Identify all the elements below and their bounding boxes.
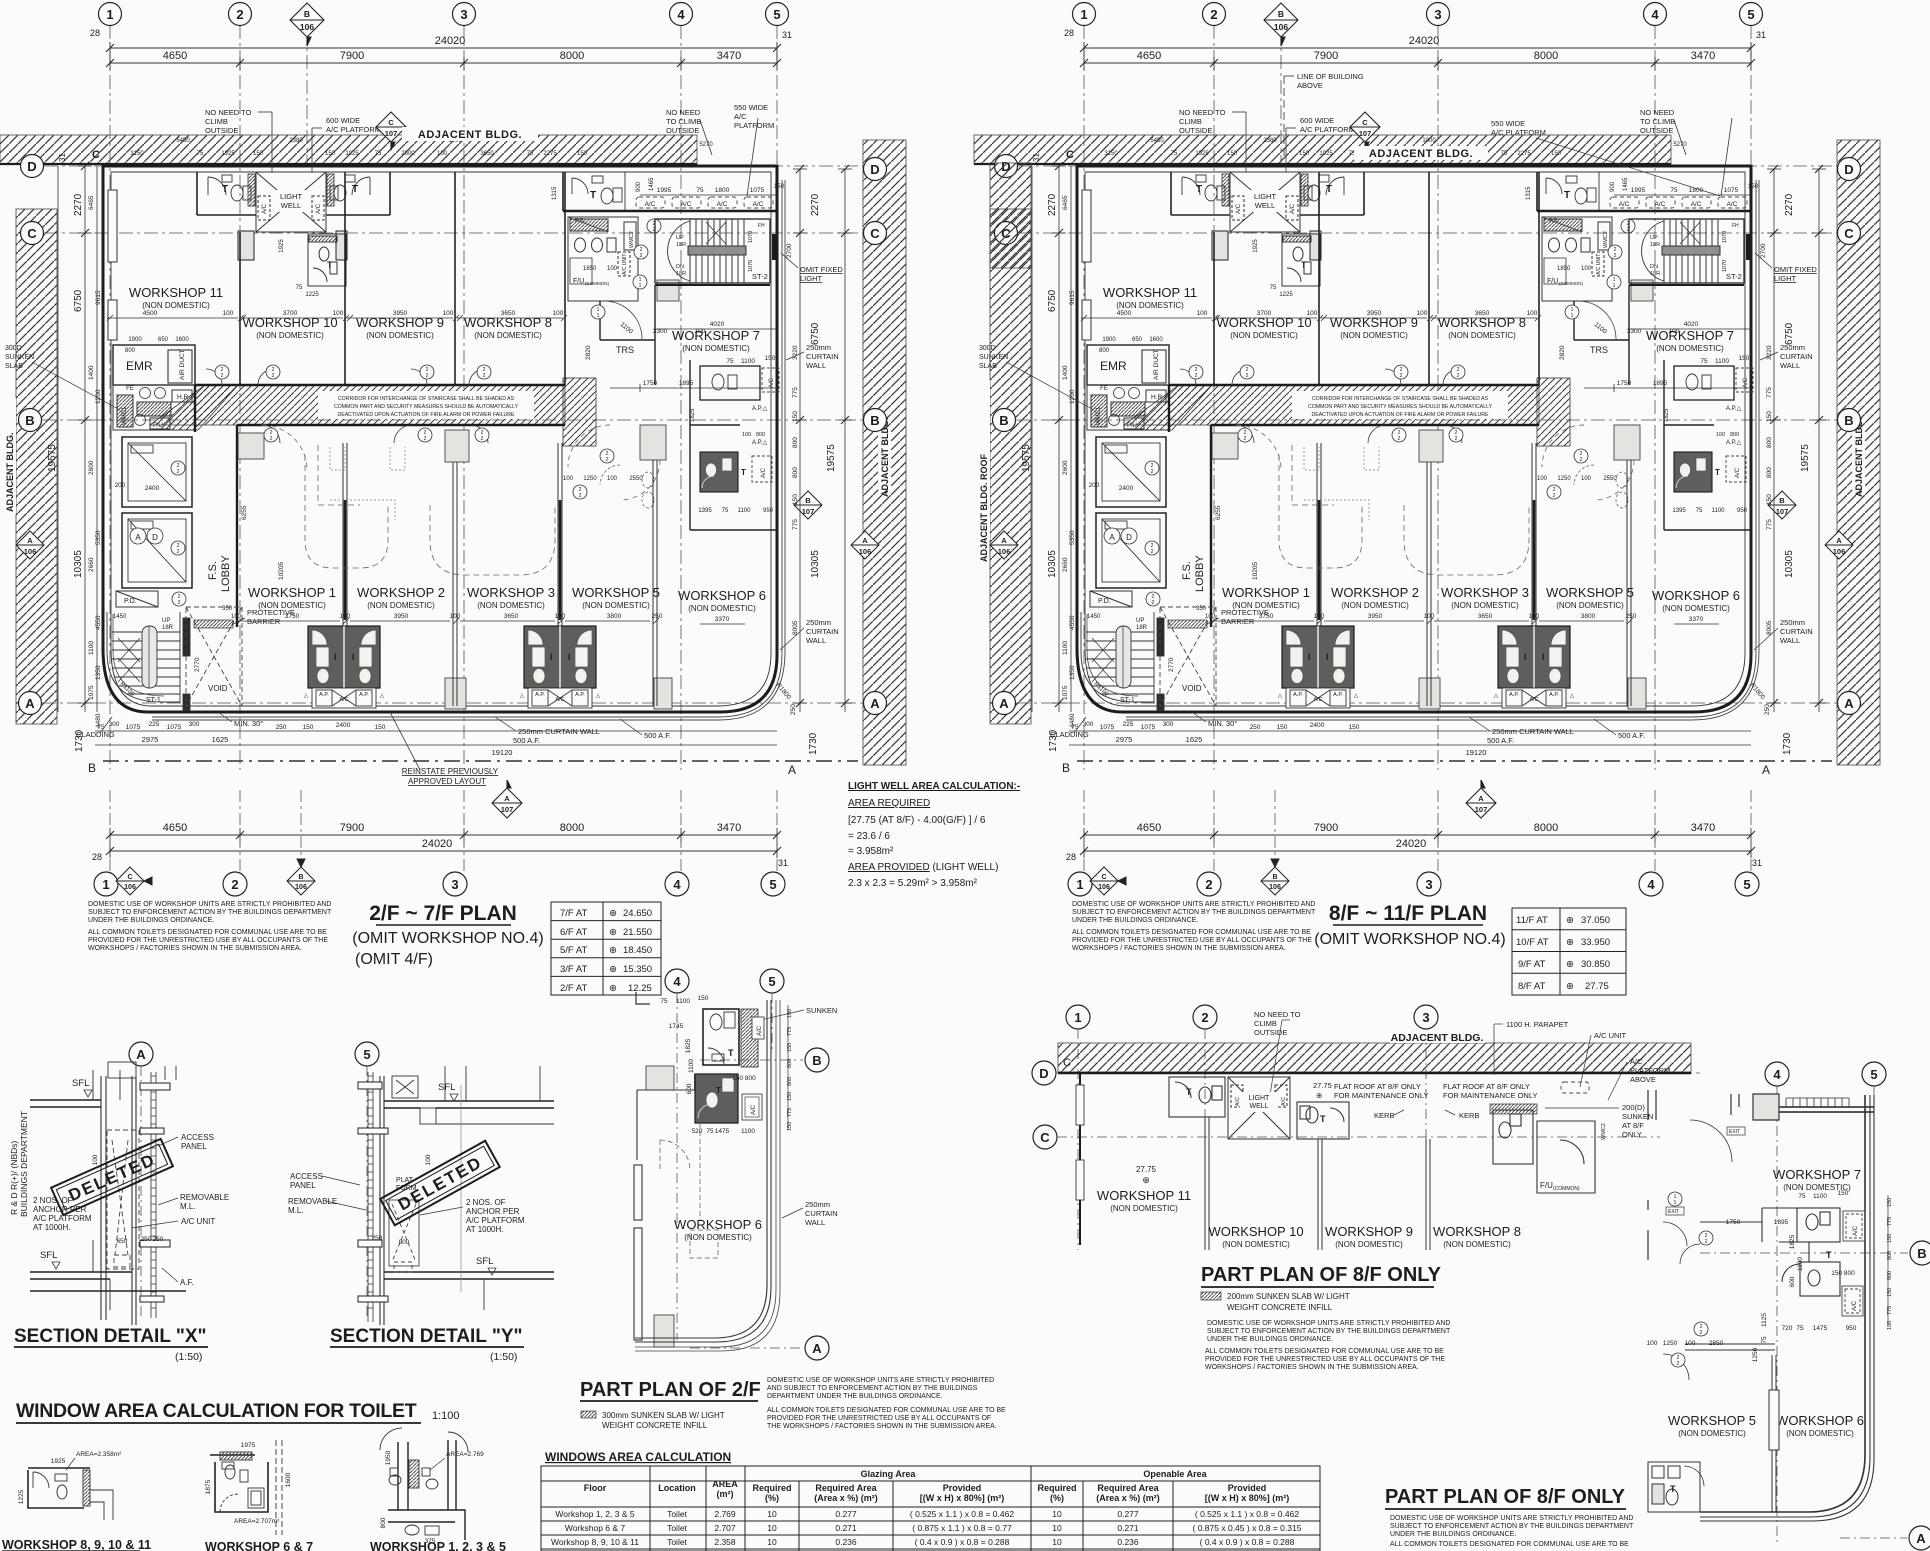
svg-text:T: T: [1826, 1250, 1832, 1260]
svg-text:PROVIDED FOR THE UNRESTRICTED: PROVIDED FOR THE UNRESTRICTED USE BY ALL…: [1205, 1356, 1445, 1363]
svg-text:WORKSHOP 6 & 7: WORKSHOP 6 & 7: [205, 1540, 313, 1551]
svg-text:1475: 1475: [715, 1128, 730, 1135]
svg-text:SUBJECT TO ENFORCEMENT ACTION: SUBJECT TO ENFORCEMENT ACTION BY THE BUI…: [1072, 909, 1316, 916]
svg-text:M.L.: M.L.: [180, 1202, 196, 1211]
svg-text:2.358: 2.358: [714, 1537, 736, 1547]
svg-text:ANCHOR PER: ANCHOR PER: [466, 1207, 520, 1216]
svg-text:1975: 1975: [241, 1442, 256, 1449]
svg-text:4: 4: [673, 877, 681, 892]
SFL labels: [40, 1078, 89, 1261]
svg-text:Required: Required: [752, 1483, 791, 1493]
svg-text:18.450: 18.450: [623, 945, 652, 956]
svg-text:27.75: 27.75: [1313, 1081, 1332, 1090]
right floor table: [1512, 908, 1626, 995]
svg-text:1600: 1600: [285, 1472, 292, 1487]
svg-text:3/F AT: 3/F AT: [560, 964, 587, 975]
svg-text:950: 950: [1846, 1325, 1857, 1332]
light well area calculation: [848, 781, 1020, 889]
svg-text:100: 100: [1685, 1340, 1696, 1347]
gray stamp text: [9, 1111, 29, 1217]
svg-text:2.769: 2.769: [714, 1509, 736, 1519]
svg-text:1925: 1925: [51, 1458, 66, 1465]
svg-text:B: B: [298, 874, 303, 881]
platform: [389, 1200, 419, 1272]
svg-text:PROVIDED FOR THE UNRESTRICTED: PROVIDED FOR THE UNRESTRICTED USE BY ALL…: [767, 1415, 991, 1422]
svg-text:ALL COMMON TOILETS DESIGNATED: ALL COMMON TOILETS DESIGNATED FOR COMMUN…: [1072, 929, 1311, 936]
svg-text:Location: Location: [658, 1483, 696, 1493]
svg-text:15.350: 15.350: [623, 964, 652, 975]
svg-text:8/F ~ 11/F PLAN: 8/F ~ 11/F PLAN: [1329, 902, 1487, 925]
svg-text:Toilet: Toilet: [667, 1523, 687, 1533]
svg-text:33.950: 33.950: [1581, 937, 1610, 948]
svg-text:CLIMB: CLIMB: [1254, 1019, 1277, 1028]
svg-text:WORKSHOP 1, 2, 3 & 5: WORKSHOP 1, 2, 3 & 5: [370, 1540, 506, 1551]
svg-text:3: 3: [1422, 1010, 1429, 1025]
right plan left strip label: [976, 380, 990, 562]
svg-text:T: T: [1186, 1087, 1192, 1097]
svg-text:WORKSHOPS / FACTORIES SHOWN IN: WORKSHOPS / FACTORIES SHOWN IN THE SUBMI…: [1205, 1364, 1419, 1371]
svg-text:1950: 1950: [385, 1450, 392, 1465]
svg-text:106: 106: [124, 884, 136, 891]
svg-text:(NON DOMESTIC): (NON DOMESTIC): [1110, 1204, 1178, 1213]
notes under left plan: [88, 901, 332, 952]
svg-text:10: 10: [1052, 1509, 1062, 1519]
svg-text:⊕: ⊕: [1566, 915, 1574, 926]
svg-text:150: 150: [1887, 1234, 1893, 1243]
svg-text:SFL: SFL: [476, 1256, 493, 1267]
svg-text:T: T: [716, 1086, 721, 1095]
A/C dashed box: [1561, 1082, 1589, 1093]
right dim chain: [787, 1005, 789, 1130]
flat roof labels: [1313, 1081, 1537, 1100]
svg-text:200mm SUNKEN SLAB W/ LIGHT: 200mm SUNKEN SLAB W/ LIGHT: [1227, 1292, 1350, 1301]
svg-text:AREA=2.358m²: AREA=2.358m²: [76, 1451, 122, 1458]
svg-text:AT 1000H.: AT 1000H.: [33, 1223, 71, 1232]
svg-text:A/C: A/C: [1852, 1300, 1858, 1311]
svg-text:ADJACENT BLDG. ROOF: ADJACENT BLDG. ROOF: [979, 453, 989, 562]
svg-text:(1:50): (1:50): [490, 1351, 517, 1363]
svg-text:(OMIT 4/F): (OMIT 4/F): [355, 951, 433, 968]
svg-text:3470: 3470: [717, 822, 741, 834]
svg-text:5: 5: [1870, 1067, 1877, 1082]
svg-text:10: 10: [767, 1509, 777, 1519]
svg-text:= 23.6 / 6: = 23.6 / 6: [848, 831, 890, 842]
svg-text:PANEL: PANEL: [181, 1142, 207, 1151]
svg-text:0.277: 0.277: [835, 1509, 857, 1519]
svg-text:800: 800: [399, 1239, 410, 1246]
svg-text:SUBJECT TO ENFORCEMENT ACTION: SUBJECT TO ENFORCEMENT ACTION BY THE BUI…: [1207, 1328, 1451, 1335]
svg-text:800: 800: [1887, 1251, 1893, 1260]
svg-text:FLAT ROOF AT 8/F ONLY: FLAT ROOF AT 8/F ONLY: [1334, 1082, 1421, 1091]
svg-text:30.850: 30.850: [1581, 959, 1610, 970]
svg-text:31: 31: [778, 858, 788, 868]
jog wall top: [636, 992, 650, 1004]
A/107 diamond: [492, 780, 522, 818]
svg-text:27.75: 27.75: [1585, 981, 1609, 992]
svg-text:150: 150: [787, 1092, 793, 1101]
right labels: [180, 1133, 229, 1287]
svg-text:150: 150: [1887, 1198, 1893, 1207]
slabs: [30, 1100, 186, 1291]
left plan ADJACENT BLDG.: [402, 127, 538, 141]
svg-text:ADJACENT BLDG.: ADJACENT BLDG.: [1391, 1032, 1484, 1044]
svg-text:0.277: 0.277: [1117, 1509, 1139, 1519]
left labels: [33, 1196, 92, 1232]
left plan 2/F-7/F: [0, 3, 906, 778]
svg-text:2/F AT: 2/F AT: [560, 983, 587, 994]
svg-text:WORKSHOP 8, 9, 10 & 11: WORKSHOP 8, 9, 10 & 11: [2, 1538, 151, 1551]
svg-text:B: B: [1917, 1246, 1926, 1261]
svg-text:WEIGHT CONCRETE INFILL: WEIGHT CONCRETE INFILL: [1227, 1303, 1333, 1312]
svg-text:ADJACENT BLDG.: ADJACENT BLDG.: [5, 432, 15, 512]
svg-text:24020: 24020: [422, 838, 453, 850]
svg-text:LIGHT: LIGHT: [1249, 1095, 1270, 1102]
svg-text:(OMIT WORKSHOP NO.4): (OMIT WORKSHOP NO.4): [352, 930, 543, 947]
walls left: [634, 1074, 695, 1340]
svg-text:800: 800: [1887, 1271, 1893, 1280]
toilet cluster: [1782, 1208, 1840, 1296]
top labels: [1254, 1010, 1670, 1084]
svg-text:550 WIDE: 550 WIDE: [734, 103, 768, 112]
interior walls: [1685, 1208, 1809, 1350]
DELETED stamp X: [51, 1139, 173, 1215]
grid circle A: [129, 1042, 153, 1066]
svg-text:(1:50): (1:50): [175, 1351, 202, 1363]
svg-text:(NON DOMESTIC): (NON DOMESTIC): [684, 1233, 752, 1242]
svg-text:A/C: A/C: [1281, 1097, 1287, 1106]
svg-text:KERB: KERB: [1374, 1111, 1394, 1120]
svg-text:[(W x H) x 80%] (m²): [(W x H) x 80%] (m²): [1205, 1493, 1290, 1503]
svg-text:Workshop 6 & 7: Workshop 6 & 7: [565, 1523, 626, 1533]
svg-text:1:100: 1:100: [432, 1410, 460, 1422]
svg-text:(NON DOMESTIC): (NON DOMESTIC): [1222, 1240, 1290, 1249]
svg-text:100: 100: [1647, 1340, 1658, 1347]
svg-text:A: A: [812, 1341, 822, 1356]
svg-text:WORKSHOP 10: WORKSHOP 10: [1208, 1224, 1303, 1239]
svg-text:A/C: A/C: [1630, 1057, 1643, 1066]
svg-text:D: D: [1039, 1066, 1048, 1081]
svg-text:A/C UNIT: A/C UNIT: [1594, 1031, 1627, 1040]
svg-text:ALL COMMON TOILETS DESIGNATED: ALL COMMON TOILETS DESIGNATED FOR COMMUN…: [767, 1407, 1006, 1414]
svg-text:600: 600: [686, 1083, 693, 1094]
workshop labels: [1097, 1165, 1521, 1249]
svg-text:150: 150: [1838, 1190, 1849, 1197]
svg-text:UNDER THE BUILDINGS ORDINANCE.: UNDER THE BUILDINGS ORDINANCE.: [1390, 1531, 1516, 1538]
svg-text:= 3.958m²: = 3.958m²: [848, 846, 894, 857]
svg-text:11/F AT: 11/F AT: [1516, 915, 1548, 926]
svg-text:1825: 1825: [1789, 1234, 1796, 1249]
svg-text:T: T: [728, 1048, 734, 1058]
svg-text:ONLY: ONLY: [1622, 1130, 1642, 1139]
svg-text:10/F AT: 10/F AT: [1516, 937, 1549, 948]
svg-text:800: 800: [380, 1517, 387, 1528]
svg-text:1100: 1100: [688, 1059, 695, 1073]
dims: [1647, 1190, 1857, 1362]
svg-text:(NON DOMESTIC): (NON DOMESTIC): [1678, 1429, 1746, 1438]
svg-text:1825: 1825: [685, 1038, 692, 1053]
svg-text:Workshop 8, 9, 10 & 11: Workshop 8, 9, 10 & 11: [551, 1537, 639, 1547]
svg-text:775: 775: [787, 1108, 793, 1117]
svg-text:200(D): 200(D): [1622, 1103, 1645, 1112]
svg-text:DOMESTIC USE OF WORKSHOP UNITS: DOMESTIC USE OF WORKSHOP UNITS ARE STRIC…: [1390, 1515, 1633, 1522]
svg-text:SECTION DETAIL "X": SECTION DETAIL "X": [14, 1326, 207, 1347]
svg-text:0.236: 0.236: [1117, 1537, 1139, 1547]
svg-text:SECTION DETAIL "Y": SECTION DETAIL "Y": [330, 1326, 523, 1347]
svg-text:REMOVABLE: REMOVABLE: [180, 1193, 229, 1202]
svg-text:A: A: [136, 1047, 146, 1062]
svg-text:APPROVED LAYOUT: APPROVED LAYOUT: [408, 777, 486, 786]
svg-text:A/C UNIT: A/C UNIT: [181, 1217, 215, 1226]
svg-text:150: 150: [1887, 1321, 1893, 1330]
svg-text:PROVIDED FOR THE UNRESTRICTED: PROVIDED FOR THE UNRESTRICTED USE BY ALL…: [88, 937, 328, 944]
svg-text:106: 106: [295, 884, 307, 891]
svg-text:4650: 4650: [163, 822, 187, 834]
DELETED stamp Y: [380, 1141, 499, 1225]
svg-text:A/C: A/C: [734, 112, 747, 121]
svg-text:⊕: ⊕: [1316, 1091, 1322, 1100]
svg-text:WORKSHOP 9: WORKSHOP 9: [1325, 1224, 1413, 1239]
svg-text:Workshop 1, 2, 3 & 5: Workshop 1, 2, 3 & 5: [555, 1509, 634, 1519]
svg-text:300mm SUNKEN SLAB W/ LIGHT: 300mm SUNKEN SLAB W/ LIGHT: [602, 1411, 725, 1420]
svg-text:⊕: ⊕: [609, 908, 617, 919]
svg-text:8000: 8000: [560, 822, 584, 834]
svg-text:5: 5: [768, 974, 775, 989]
svg-text:BUILDINGS DEPARTMENT: BUILDINGS DEPARTMENT: [19, 1111, 29, 1217]
svg-text:REINSTATE PREVIOUSLY: REINSTATE PREVIOUSLY: [402, 767, 499, 776]
svg-text:10: 10: [1052, 1537, 1062, 1547]
svg-text:AREA: AREA: [712, 1479, 738, 1489]
interior rooms: [1169, 1077, 1225, 1117]
svg-text:CURTAIN: CURTAIN: [805, 1209, 838, 1218]
svg-text:ALL COMMON TOILETS DESIGNATED: ALL COMMON TOILETS DESIGNATED FOR COMMUN…: [88, 929, 327, 936]
svg-text:A/C: A/C: [1853, 1225, 1859, 1236]
svg-text:C: C: [1040, 1130, 1050, 1145]
svg-text:75: 75: [660, 998, 668, 1005]
main wall: [1058, 1072, 1691, 1075]
svg-text:1: 1: [1074, 1010, 1081, 1025]
svg-text:2: 2: [231, 877, 238, 892]
toilet plan 1: [28, 1468, 90, 1508]
grid circles 4,5: [665, 969, 689, 993]
svg-text:1100: 1100: [1797, 1257, 1804, 1271]
partitions: [1205, 1117, 1430, 1250]
svg-text:WORKSHOPS / FACTORIES SHOWN IN: WORKSHOPS / FACTORIES SHOWN IN THE SUBMI…: [88, 945, 302, 952]
svg-text:C: C: [127, 874, 132, 881]
svg-text:WORKSHOP 11: WORKSHOP 11: [1097, 1188, 1191, 1203]
M.L. chain: [151, 1072, 156, 1318]
svg-text:WORKSHOP 7: WORKSHOP 7: [1773, 1167, 1861, 1182]
right paragraphs: [767, 1377, 1006, 1430]
right labels: [466, 1198, 525, 1234]
svg-text:150: 150: [698, 995, 709, 1002]
right plan 8/F-11/F: [974, 3, 1880, 778]
svg-text:AREA PROVIDED (LIGHT WELL): AREA PROVIDED (LIGHT WELL): [848, 862, 998, 873]
top dims: [660, 995, 756, 1135]
svg-text:75: 75: [1798, 1193, 1806, 1200]
svg-text:( 0.4 x 0.9 ) x 0.8 = 0.288: ( 0.4 x 0.9 ) x 0.8 = 0.288: [1200, 1537, 1295, 1547]
svg-text:12.25: 12.25: [628, 983, 652, 994]
A/C box top: [752, 1017, 764, 1039]
svg-text:AND SUBJECT TO ENFORCEMENT ACT: AND SUBJECT TO ENFORCEMENT ACTION BY THE…: [767, 1385, 978, 1392]
svg-text:10: 10: [1052, 1523, 1062, 1533]
A/C box 2: [742, 1094, 762, 1120]
left plan left strip label: [2, 398, 16, 514]
right plan 550 WIDE label: [1491, 119, 1720, 196]
svg-text:6/F AT: 6/F AT: [560, 927, 587, 938]
svg-text:WEIGHT CONCRETE INFILL: WEIGHT CONCRETE INFILL: [602, 1421, 708, 1430]
svg-text:LINE OF BUILDING: LINE OF BUILDING: [1297, 72, 1364, 81]
F/U room: [1493, 1110, 1595, 1193]
svg-text:SFL: SFL: [40, 1250, 57, 1261]
svg-text:720: 720: [1782, 1325, 1793, 1332]
svg-text:75: 75: [706, 1128, 714, 1135]
bottom dim lines: [110, 828, 777, 858]
svg-text:1: 1: [1674, 1200, 1677, 1206]
bottom grid verticals: [110, 790, 777, 871]
svg-text:KERB: KERB: [1459, 1111, 1479, 1120]
svg-text:[(W x H) x 80%] (m²): [(W x H) x 80%] (m²): [920, 1493, 1005, 1503]
svg-text:(m²): (m²): [717, 1489, 734, 1499]
svg-text:Provided: Provided: [1228, 1483, 1267, 1493]
svg-text:ABOVE: ABOVE: [1630, 1075, 1656, 1084]
workshop labels: [1668, 1167, 1864, 1438]
column blocks: [646, 1066, 674, 1347]
B / A circles: [805, 1048, 829, 1072]
svg-text:Provided: Provided: [943, 1483, 982, 1493]
right plan ADJACENT BLDG.: [1354, 146, 1488, 160]
svg-text:0.271: 0.271: [835, 1523, 857, 1533]
200(D) sunken note: [1622, 1103, 1653, 1139]
svg-text:LIGHT WELL AREA CALCULATION:-: LIGHT WELL AREA CALCULATION:-: [848, 781, 1020, 792]
svg-text:SFL: SFL: [72, 1078, 89, 1089]
svg-text:OUTSIDE: OUTSIDE: [1254, 1028, 1287, 1037]
svg-text:⊕: ⊕: [609, 983, 617, 994]
sunken hatched strip: [1490, 1104, 1537, 1114]
svg-text:150: 150: [787, 1122, 793, 1131]
svg-text:T: T: [1670, 1484, 1676, 1494]
svg-text:(COMMON): (COMMON): [1553, 1186, 1580, 1192]
svg-text:1250: 1250: [1663, 1340, 1678, 1347]
right plan title: [1314, 902, 1505, 948]
svg-text:1475: 1475: [1813, 1325, 1828, 1332]
left partial walls: [1648, 1090, 1779, 1260]
svg-text:EXIT: EXIT: [1729, 1129, 1740, 1135]
svg-text:5: 5: [769, 877, 776, 892]
svg-text:ALL COMMON TOILETS DESIGNATED: ALL COMMON TOILETS DESIGNATED FOR COMMUN…: [1205, 1348, 1444, 1355]
right plan left strip upper extension: [990, 163, 1031, 268]
toilet plan 2: [210, 1455, 268, 1512]
B/106 diamond: [287, 859, 315, 895]
svg-text:ACCESS: ACCESS: [181, 1133, 214, 1142]
svg-text:UNDER THE BUILDINGS ORDINANCE.: UNDER THE BUILDINGS ORDINANCE.: [1207, 1336, 1333, 1343]
svg-text:0.236: 0.236: [835, 1537, 857, 1547]
svg-text:800: 800: [787, 1077, 793, 1086]
svg-text:150: 150: [787, 1009, 793, 1018]
svg-text:A/C PLATFORM: A/C PLATFORM: [466, 1216, 525, 1225]
svg-text:775: 775: [1887, 1217, 1893, 1226]
svg-text:Glazing Area: Glazing Area: [861, 1469, 917, 1479]
light well: [1228, 1077, 1290, 1139]
svg-text:FOR MAINTENANCE ONLY: FOR MAINTENANCE ONLY: [1443, 1091, 1537, 1100]
svg-text:(NON DOMESTIC): (NON DOMESTIC): [1335, 1240, 1403, 1249]
svg-text:DELETED: DELETED: [66, 1150, 159, 1205]
svg-text:PROVIDED FOR THE UNRESTRICTED: PROVIDED FOR THE UNRESTRICTED USE BY ALL…: [1072, 937, 1312, 944]
svg-text:550 WIDE: 550 WIDE: [1491, 119, 1525, 128]
top wall with comb: [1753, 1107, 1874, 1112]
svg-text:(%): (%): [765, 1493, 779, 1503]
svg-text:2 NOS. OF: 2 NOS. OF: [33, 1196, 73, 1205]
notes under right plan: [1072, 901, 1316, 952]
svg-text:100: 100: [92, 1154, 99, 1165]
svg-text:DOMESTIC USE OF WORKSHOP UNITS: DOMESTIC USE OF WORKSHOP UNITS ARE STRIC…: [1072, 901, 1315, 908]
toilet 2: [1297, 1102, 1349, 1139]
svg-text:1895: 1895: [1774, 1219, 1789, 1226]
svg-text:2.707: 2.707: [714, 1523, 736, 1533]
svg-text:WORKSHOPS / FACTORIES SHOWN IN: WORKSHOPS / FACTORIES SHOWN IN THE SUBMI…: [1072, 945, 1286, 952]
svg-text:150: 150: [787, 1043, 793, 1052]
svg-text:F/U: F/U: [1540, 1181, 1553, 1190]
svg-text:A.F.: A.F.: [180, 1278, 194, 1287]
svg-text:1250: 1250: [1752, 1347, 1759, 1362]
svg-text:5/F AT: 5/F AT: [560, 945, 587, 956]
svg-text:0.271: 0.271: [1117, 1523, 1139, 1533]
svg-text:1125: 1125: [1761, 1313, 1768, 1327]
svg-text:WELL: WELL: [1249, 1103, 1268, 1110]
svg-text:(NON DOMESTIC): (NON DOMESTIC): [1786, 1429, 1854, 1438]
svg-text:DOMESTIC USE OF WORKSHOP UNITS: DOMESTIC USE OF WORKSHOP UNITS ARE STRIC…: [1207, 1320, 1450, 1327]
svg-text:ADJACENT BLDG.: ADJACENT BLDG.: [418, 129, 522, 141]
svg-text:2: 2: [1700, 1330, 1703, 1336]
svg-text:Floor: Floor: [584, 1483, 607, 1493]
svg-text:520: 520: [692, 1128, 703, 1135]
svg-text:UNDER THE BUILDINGS ORDINANCE.: UNDER THE BUILDINGS ORDINANCE.: [1072, 917, 1198, 924]
svg-text:28: 28: [92, 852, 102, 862]
svg-text:FOR MAINTENANCE ONLY: FOR MAINTENANCE ONLY: [1334, 1091, 1428, 1100]
svg-text:10: 10: [767, 1523, 777, 1533]
toilet room upper: [703, 1009, 739, 1065]
svg-text:PART PLAN OF 2/F: PART PLAN OF 2/F: [580, 1379, 761, 1401]
svg-text:A: A: [1916, 1531, 1926, 1546]
svg-text:107: 107: [501, 805, 514, 814]
svg-text:PART PLAN OF 8/F ONLY: PART PLAN OF 8/F ONLY: [1201, 1264, 1442, 1286]
svg-text:R & D R(+)/ (NBDs): R & D R(+)/ (NBDs): [9, 1140, 19, 1215]
svg-text:1875: 1875: [205, 1479, 212, 1494]
svg-text:A: A: [504, 794, 510, 803]
svg-text:7900: 7900: [340, 822, 364, 834]
svg-text:[27.75 (AT 8/F) - 4.00(G/F) ]: [27.75 (AT 8/F) - 4.00(G/F) ] / 6: [848, 815, 986, 826]
svg-text:( 0.875 x 0.45 ) x 0.8 = 0.315: ( 0.875 x 0.45 ) x 0.8 = 0.315: [1193, 1523, 1302, 1533]
svg-text:8/F AT: 8/F AT: [1518, 981, 1545, 992]
svg-text:4: 4: [1773, 1067, 1781, 1082]
svg-text:WINDOW AREA CALCULATION FOR TO: WINDOW AREA CALCULATION FOR TOILET: [16, 1400, 417, 1422]
toilet plan 3: [388, 1440, 465, 1540]
svg-text:ABOVE: ABOVE: [1297, 81, 1323, 90]
svg-text:( 0.525 x 1.1 ) x 0.8 = 0.462: ( 0.525 x 1.1 ) x 0.8 = 0.462: [910, 1509, 1014, 1519]
svg-text:600: 600: [1789, 1276, 1796, 1287]
svg-text:775: 775: [787, 1027, 793, 1036]
svg-text:150 800: 150 800: [1831, 1270, 1855, 1277]
svg-text:AREA=2.769: AREA=2.769: [446, 1451, 484, 1458]
svg-text:650: 650: [117, 1238, 128, 1245]
svg-text:2.3 x 2.3 = 5.29m² > 3.958m²: 2.3 x 2.3 = 5.29m² > 3.958m²: [848, 878, 978, 889]
svg-text:EXIT: EXIT: [1668, 1209, 1679, 1215]
svg-text:Toilet: Toilet: [667, 1509, 687, 1519]
left plan title: [352, 902, 543, 968]
svg-text:PLATFORM: PLATFORM: [734, 121, 774, 130]
W5|W6 partition wall: [1769, 1355, 1779, 1512]
svg-text:REMOVABLE: REMOVABLE: [288, 1197, 337, 1206]
svg-text:PANEL: PANEL: [290, 1181, 316, 1190]
